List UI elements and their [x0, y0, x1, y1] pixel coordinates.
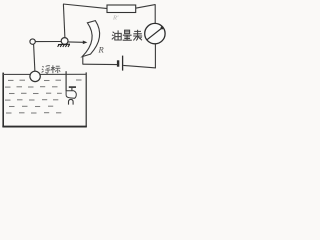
wire resistor to top-right corner: [136, 5, 156, 9]
meter (oil gauge) circle: [145, 23, 165, 43]
wire battery to left: [83, 63, 118, 65]
tank right wall: [85, 72, 87, 127]
hanzi FU (float): [42, 66, 44, 72]
hanzi YOU (oil): [112, 32, 114, 40]
left joint circle: [30, 39, 35, 44]
pivot support hatching: [58, 44, 70, 47]
pivot circle: [61, 38, 68, 45]
background paper: [0, 0, 168, 132]
battery short thick plate: [117, 60, 119, 66]
wire bottom right to battery: [123, 65, 156, 68]
liquid surface right segment: [40, 73, 86, 75]
wire down to meter: [154, 4, 156, 23]
tank left wall: [2, 73, 4, 127]
meter needle dot: [161, 26, 164, 29]
tank bottom: [2, 126, 86, 128]
hanzi BIAO (gauge): [133, 30, 142, 41]
gauge label (hanzi drawn as strokes): [112, 30, 142, 41]
tap body with spout: [66, 91, 77, 99]
hanzi LIANG (quantity): [123, 30, 132, 40]
wire top horizontal to resistor: [63, 4, 108, 9]
wiper arm: [68, 41, 83, 43]
tap riser pipe: [65, 71, 67, 91]
float label (hanzi drawn as strokes): [42, 65, 61, 73]
svg-text:R′: R′: [112, 15, 119, 22]
tap handle stem: [71, 88, 73, 91]
battery long plate: [122, 56, 124, 71]
float rod: [34, 44, 35, 71]
liquid surface left segment: [3, 73, 30, 75]
hanzi BIAO (mark): [51, 65, 55, 73]
wiper arrowhead: [83, 41, 88, 45]
tap handle bar: [69, 86, 76, 88]
meter needle: [146, 28, 162, 41]
svg-text:R: R: [98, 45, 105, 55]
wire meter down: [154, 44, 156, 68]
wire from pivot up to top-left corner: [63, 4, 65, 38]
rheostat R curved strip: [82, 21, 99, 57]
liquid dashes: [5, 80, 82, 113]
lever bar between circles: [35, 41, 61, 43]
wire up to rheostat bottom: [82, 56, 84, 65]
float circle: [30, 71, 40, 81]
water outlet: [69, 99, 74, 104]
resistor R' box: [107, 5, 136, 13]
